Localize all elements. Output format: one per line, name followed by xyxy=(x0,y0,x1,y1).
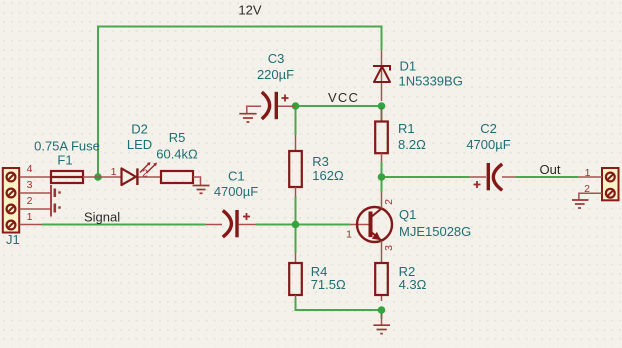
svg-text:MJE15028G: MJE15028G xyxy=(399,224,471,239)
svg-text:4.3Ω: 4.3Ω xyxy=(399,277,427,292)
junction dot D1/R1 VCC xyxy=(378,102,386,110)
capacitor C3 xyxy=(247,51,296,119)
wire R1 bottom to out node xyxy=(381,162,383,192)
pin 4 J1 xyxy=(20,176,52,178)
svg-text:D2: D2 xyxy=(131,122,148,137)
svg-text:R3: R3 xyxy=(312,154,329,169)
ground Out xyxy=(572,200,588,208)
svg-text:R5: R5 xyxy=(169,130,186,145)
LED D2 xyxy=(111,122,157,186)
pin 3 J1 xyxy=(20,192,52,194)
junction dot R3/R4/Q1 base xyxy=(292,221,300,229)
connector J1 xyxy=(3,168,20,247)
zener diode D1 xyxy=(373,50,463,101)
svg-text:1: 1 xyxy=(346,229,352,241)
resistor R1 xyxy=(375,107,426,162)
resistor R3 xyxy=(289,135,344,197)
wire VCC net xyxy=(296,106,382,135)
svg-text:4700µF: 4700µF xyxy=(214,184,258,199)
ground main xyxy=(373,313,390,334)
resistor R4 xyxy=(289,253,346,298)
svg-text:1: 1 xyxy=(111,166,117,178)
svg-text:D1: D1 xyxy=(400,59,417,74)
svg-text:2: 2 xyxy=(27,195,33,207)
junction dot R2/ground xyxy=(378,306,386,314)
resistor R5 xyxy=(156,130,198,183)
svg-text:3: 3 xyxy=(383,245,395,251)
resistor R2 xyxy=(375,263,426,301)
capacitor C1 xyxy=(206,169,259,238)
junction dot C3/VCC xyxy=(292,102,300,110)
pin 2 J1 xyxy=(20,208,52,210)
svg-text:C3: C3 xyxy=(268,51,285,66)
wire R4 bottom to ground bus xyxy=(296,298,382,319)
svg-text:1: 1 xyxy=(27,211,33,223)
svg-text:4: 4 xyxy=(27,163,33,175)
svg-text:162Ω: 162Ω xyxy=(312,168,344,183)
capacitor C2 xyxy=(466,121,515,190)
ground C3 xyxy=(239,114,256,122)
svg-text:R1: R1 xyxy=(398,121,415,136)
svg-text:LED: LED xyxy=(127,137,152,152)
wire LED to R5 xyxy=(139,176,162,178)
svg-text:60.4kΩ: 60.4kΩ xyxy=(156,147,198,162)
svg-text:220µF: 220µF xyxy=(257,67,294,82)
svg-text:12V: 12V xyxy=(238,3,261,18)
transistor Q1 xyxy=(346,192,471,263)
wire fuse to LED xyxy=(83,176,122,178)
no-connect marks pins 2,3 xyxy=(51,185,61,217)
svg-text:1: 1 xyxy=(585,167,591,179)
ground R5 xyxy=(193,186,210,194)
pin 1 Out xyxy=(578,176,602,178)
wire out node to C2 xyxy=(382,176,470,178)
pin 2 Out xyxy=(579,193,602,199)
svg-text:3: 3 xyxy=(27,179,33,191)
svg-text:Q1: Q1 xyxy=(399,207,416,222)
svg-text:C2: C2 xyxy=(480,121,497,136)
wire C1 to R3/R4/Q1 base node xyxy=(256,224,350,226)
pin 1 J1 xyxy=(20,224,43,226)
svg-text:71.5Ω: 71.5Ω xyxy=(311,277,346,292)
svg-text:VCC: VCC xyxy=(328,90,359,105)
svg-text:C1: C1 xyxy=(228,169,245,184)
wire R5 to ground xyxy=(193,177,201,185)
svg-text:F1: F1 xyxy=(57,153,72,168)
svg-text:2: 2 xyxy=(584,183,590,195)
svg-text:1N5339BG: 1N5339BG xyxy=(399,73,463,88)
junction dot R1/C2/Q1 collector xyxy=(378,173,386,181)
svg-text:Out: Out xyxy=(540,162,561,177)
svg-text:2: 2 xyxy=(383,199,395,205)
junction dot F1/left rail xyxy=(94,173,102,181)
wire 12V rail xyxy=(98,27,382,178)
svg-text:Signal: Signal xyxy=(84,210,120,225)
svg-text:4700µF: 4700µF xyxy=(466,137,510,152)
svg-text:0.75A Fuse: 0.75A Fuse xyxy=(34,139,100,154)
wire Signal net xyxy=(42,224,206,226)
connector Out xyxy=(602,168,619,200)
wire R3 bottom to node xyxy=(295,197,297,254)
fuse F1 xyxy=(34,139,100,184)
svg-text:8.2Ω: 8.2Ω xyxy=(398,137,426,152)
wire C2 to Out connector xyxy=(516,176,579,178)
svg-text:J1: J1 xyxy=(6,232,20,247)
